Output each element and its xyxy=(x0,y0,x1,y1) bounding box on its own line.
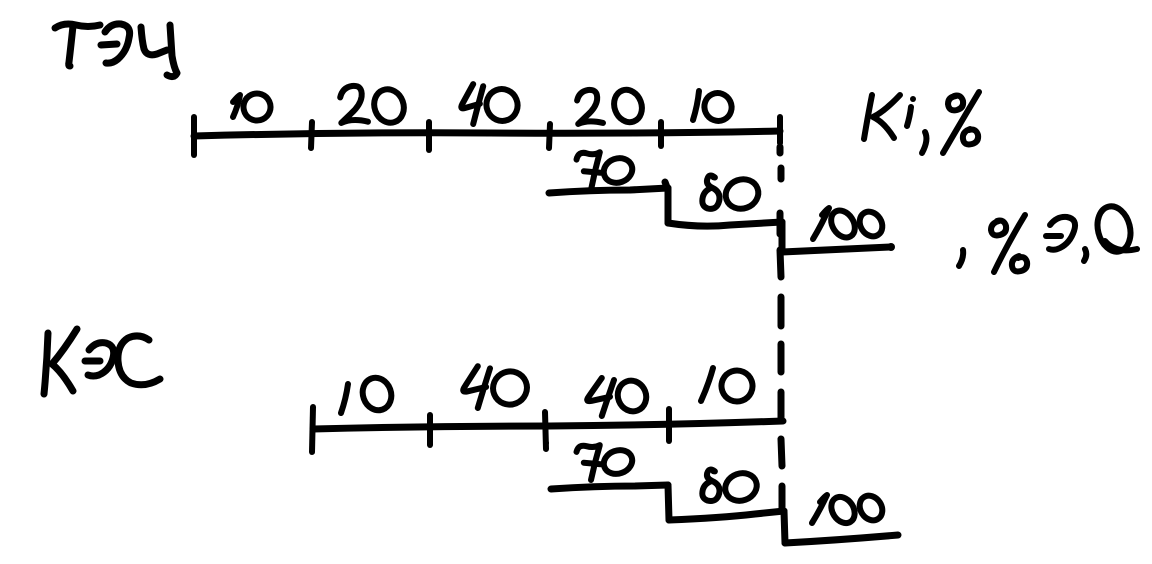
step КЭС drop 70-80 xyxy=(668,485,669,520)
label 10 (КЭС seg4) xyxy=(701,366,757,406)
tick 0% (КЭС) xyxy=(312,407,313,452)
step КЭС 70% segment xyxy=(551,485,668,489)
label 70 (ТЭЦ) xyxy=(577,152,636,190)
axis ТЭЦ xyxy=(194,131,780,136)
step ТЭЦ 80% segment xyxy=(668,222,782,226)
label ТЭЦ xyxy=(55,24,177,77)
step ТЭЦ drop 80-100 xyxy=(779,222,786,252)
label 20 (ТЭЦ seg4) xyxy=(577,86,646,126)
axis КЭС xyxy=(313,421,783,429)
dashed guide line 100% xyxy=(780,147,782,510)
label 40 (КЭС seg3) xyxy=(587,376,651,416)
axis label %Э,Q xyxy=(959,203,1137,272)
tick 30% xyxy=(426,122,432,150)
label 10 (ТЭЦ seg5) xyxy=(693,89,736,126)
step ТЭЦ 70% segment xyxy=(549,188,668,193)
label 80 (КЭС) xyxy=(702,468,760,505)
step ТЭЦ drop 70-80 xyxy=(665,188,672,223)
label 10 (ТЭЦ seg1) xyxy=(233,89,275,125)
endpoint dot xyxy=(887,243,895,251)
step КЭС 80% segment xyxy=(669,511,784,520)
tick 10% (КЭС) xyxy=(427,415,433,445)
tick 0% xyxy=(191,117,197,155)
step КЭС 100% segment xyxy=(785,535,898,543)
label 80 (ТЭЦ) xyxy=(702,174,762,213)
label 40 (КЭС seg2) xyxy=(463,366,532,409)
step КЭС drop 80-100 xyxy=(784,511,785,543)
step corner tick xyxy=(665,182,668,190)
axis label Ki,% xyxy=(864,92,979,153)
label КЭС xyxy=(44,329,160,394)
label 100 (ТЭЦ) xyxy=(813,206,887,242)
label 20 (ТЭЦ seg2) xyxy=(340,85,408,127)
tick 90% xyxy=(658,122,664,146)
tick 100% xyxy=(777,117,783,143)
tick 10% xyxy=(311,122,312,148)
ink dot xyxy=(543,440,549,446)
tick 70% xyxy=(549,124,550,148)
label 100 (КЭС) xyxy=(812,491,887,527)
label 70 (КЭС) xyxy=(577,445,636,480)
step ТЭЦ 100% segment xyxy=(782,247,891,252)
tick 90% (КЭС) xyxy=(666,409,672,441)
label 10 (КЭС seg1) xyxy=(341,374,396,415)
tick 50% (КЭС) xyxy=(545,412,546,449)
label 40 (ТЭЦ seg3) xyxy=(461,84,522,126)
